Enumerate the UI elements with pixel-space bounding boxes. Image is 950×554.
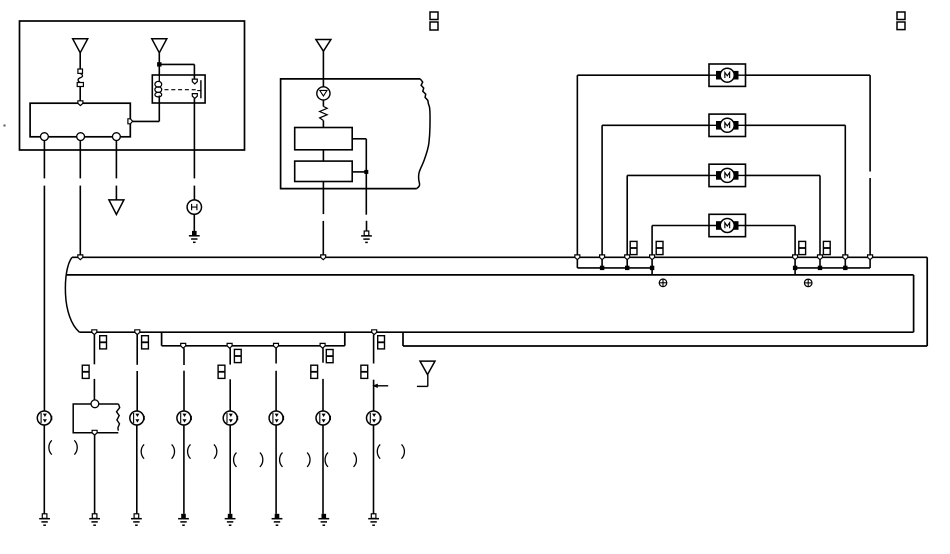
wire <box>794 226 796 255</box>
wire <box>373 425 375 514</box>
wire <box>193 98 195 178</box>
wire <box>93 379 95 400</box>
wire <box>651 226 653 255</box>
wire <box>322 379 324 411</box>
pin <box>320 343 325 348</box>
pin <box>78 255 83 260</box>
connector C15 <box>218 365 225 378</box>
wire <box>115 186 117 200</box>
ground G11 <box>318 514 329 525</box>
connector C11 <box>378 336 385 349</box>
wire <box>322 425 324 514</box>
power symbol triangle T2 <box>152 39 167 53</box>
connector parentheses P2 <box>141 444 174 458</box>
pin <box>650 255 655 260</box>
ECU box A outline <box>65 257 927 346</box>
wire <box>43 140 45 178</box>
ECU connector notch <box>162 332 345 346</box>
connector parentheses P1 <box>49 440 77 454</box>
wire <box>136 371 138 411</box>
logic block B2 <box>295 161 353 181</box>
connector C17 <box>361 365 368 378</box>
pin <box>128 119 133 124</box>
pin <box>78 101 83 106</box>
wire <box>652 225 709 227</box>
ground G2 <box>361 231 372 242</box>
switch box (torn) S1 <box>73 404 120 433</box>
component W8 <box>367 411 382 425</box>
speck <box>4 125 6 127</box>
terminal circle <box>41 133 49 141</box>
wire <box>746 174 821 176</box>
wire <box>577 260 652 275</box>
connector C13 <box>326 350 333 363</box>
wire <box>626 175 628 254</box>
wire <box>229 348 231 364</box>
connector parentheses P3 <box>188 444 217 458</box>
component W1 <box>37 411 52 425</box>
connector C10 <box>142 336 149 349</box>
wire <box>366 221 368 231</box>
connector C12 <box>234 349 241 362</box>
wire <box>746 74 871 76</box>
wire <box>79 87 81 102</box>
ground G8 <box>178 514 189 525</box>
ground bolt G4 <box>804 279 812 287</box>
wire <box>183 425 185 514</box>
motor M3 <box>709 164 746 186</box>
wire <box>193 186 195 201</box>
connector C9 <box>100 336 107 349</box>
wire <box>322 51 324 87</box>
wire <box>322 121 324 128</box>
wire <box>322 100 324 106</box>
wire <box>373 335 375 364</box>
power symbol triangle T1 <box>73 39 88 53</box>
connector parentheses P4 <box>234 453 263 467</box>
wire <box>159 64 194 79</box>
junction <box>650 266 654 270</box>
ground G5 <box>89 514 100 525</box>
junction <box>793 266 797 270</box>
horn H1 <box>187 200 201 214</box>
ground bolt G3 <box>659 279 667 287</box>
wire <box>183 348 185 365</box>
wire <box>183 371 185 412</box>
arrow triangle (to other circuit) <box>109 200 124 215</box>
wire <box>627 174 709 176</box>
wire <box>602 124 709 126</box>
ground G6 <box>39 514 50 525</box>
pin <box>227 343 232 348</box>
wire <box>43 425 45 514</box>
connector C6 <box>656 241 663 254</box>
component W3 <box>130 411 145 425</box>
fusible link F1 <box>77 69 83 87</box>
wire <box>275 371 277 411</box>
component W4 <box>177 411 192 425</box>
connector parentheses P6 <box>325 453 356 467</box>
control unit box (torn right edge) <box>281 79 430 189</box>
wire <box>229 379 231 411</box>
motor M1 <box>709 64 746 86</box>
terminal circle <box>113 133 121 141</box>
pin <box>575 255 580 260</box>
logic block B1 <box>295 128 353 150</box>
wire <box>322 348 324 363</box>
pin <box>372 330 377 335</box>
power symbol triangle T3 <box>316 40 331 52</box>
pin <box>181 343 186 348</box>
component W7 <box>316 411 331 425</box>
ground G10 <box>272 514 283 525</box>
motor M2 <box>709 114 746 136</box>
option triangle <box>420 361 435 375</box>
wire <box>869 75 871 171</box>
wire <box>322 221 324 255</box>
pin <box>868 255 873 260</box>
wire <box>43 186 45 412</box>
relay K1 box <box>152 75 205 103</box>
wire <box>93 335 95 365</box>
wire <box>79 186 81 255</box>
pin <box>600 255 605 260</box>
wire <box>193 214 195 231</box>
connector reference squares <box>897 12 905 30</box>
wire <box>229 425 231 514</box>
component W5 <box>223 411 238 425</box>
ground G9 <box>225 514 236 525</box>
relay contact pin <box>192 94 197 99</box>
connector C7 <box>799 241 806 254</box>
relay actuator dashed link <box>165 89 198 91</box>
connector C8 <box>823 241 830 254</box>
wire <box>352 139 366 172</box>
wire <box>322 182 324 215</box>
junction <box>600 266 604 270</box>
relay switch blade <box>197 80 201 98</box>
wire <box>365 172 367 215</box>
wire <box>158 52 160 75</box>
wire <box>373 380 375 412</box>
relay contact pin <box>192 79 197 84</box>
pin <box>274 343 279 348</box>
junction <box>364 170 368 174</box>
wire <box>133 97 159 121</box>
wire <box>136 425 138 514</box>
wire <box>576 75 578 255</box>
option arrow <box>372 384 388 388</box>
junction <box>843 266 847 270</box>
ECU box B outline <box>66 275 914 332</box>
pin <box>92 430 97 435</box>
connector C14 <box>82 365 89 378</box>
pin <box>625 255 630 260</box>
junction <box>157 62 161 66</box>
component W6 <box>269 411 284 425</box>
wire <box>94 435 96 514</box>
pin <box>92 330 97 335</box>
fuse box outline <box>20 21 245 150</box>
wire <box>601 125 603 255</box>
wire <box>746 124 846 126</box>
resistor R1 <box>320 106 328 120</box>
indicator diode D1 <box>317 87 330 100</box>
connector parentheses P7 <box>377 444 404 458</box>
wire <box>844 125 846 255</box>
pin <box>818 255 823 260</box>
connector block J1 <box>30 103 130 137</box>
ground G7 <box>131 514 142 525</box>
pin <box>843 255 848 260</box>
pin <box>793 255 798 260</box>
wire <box>115 140 117 178</box>
ground G12 <box>368 514 379 525</box>
ground G1 <box>189 231 200 242</box>
wire <box>136 335 138 365</box>
wire <box>322 150 324 161</box>
connector C5 <box>630 241 637 254</box>
wire <box>795 260 870 275</box>
pin <box>135 330 140 335</box>
terminal circle <box>91 400 99 408</box>
wire <box>417 375 428 387</box>
wire <box>79 52 81 69</box>
connector parentheses P5 <box>280 453 310 467</box>
terminal circle <box>77 133 85 141</box>
pin <box>321 255 326 260</box>
wire <box>275 348 277 363</box>
connector C16 <box>311 365 318 378</box>
wire <box>577 74 709 76</box>
junction <box>625 266 629 270</box>
connector reference squares <box>430 12 438 30</box>
wire <box>869 178 871 255</box>
junction <box>818 266 822 270</box>
wire <box>819 175 821 254</box>
wire <box>79 140 81 178</box>
wire <box>746 225 796 227</box>
relay coil <box>155 75 162 103</box>
motor M4 <box>709 214 746 236</box>
wire <box>275 425 277 514</box>
